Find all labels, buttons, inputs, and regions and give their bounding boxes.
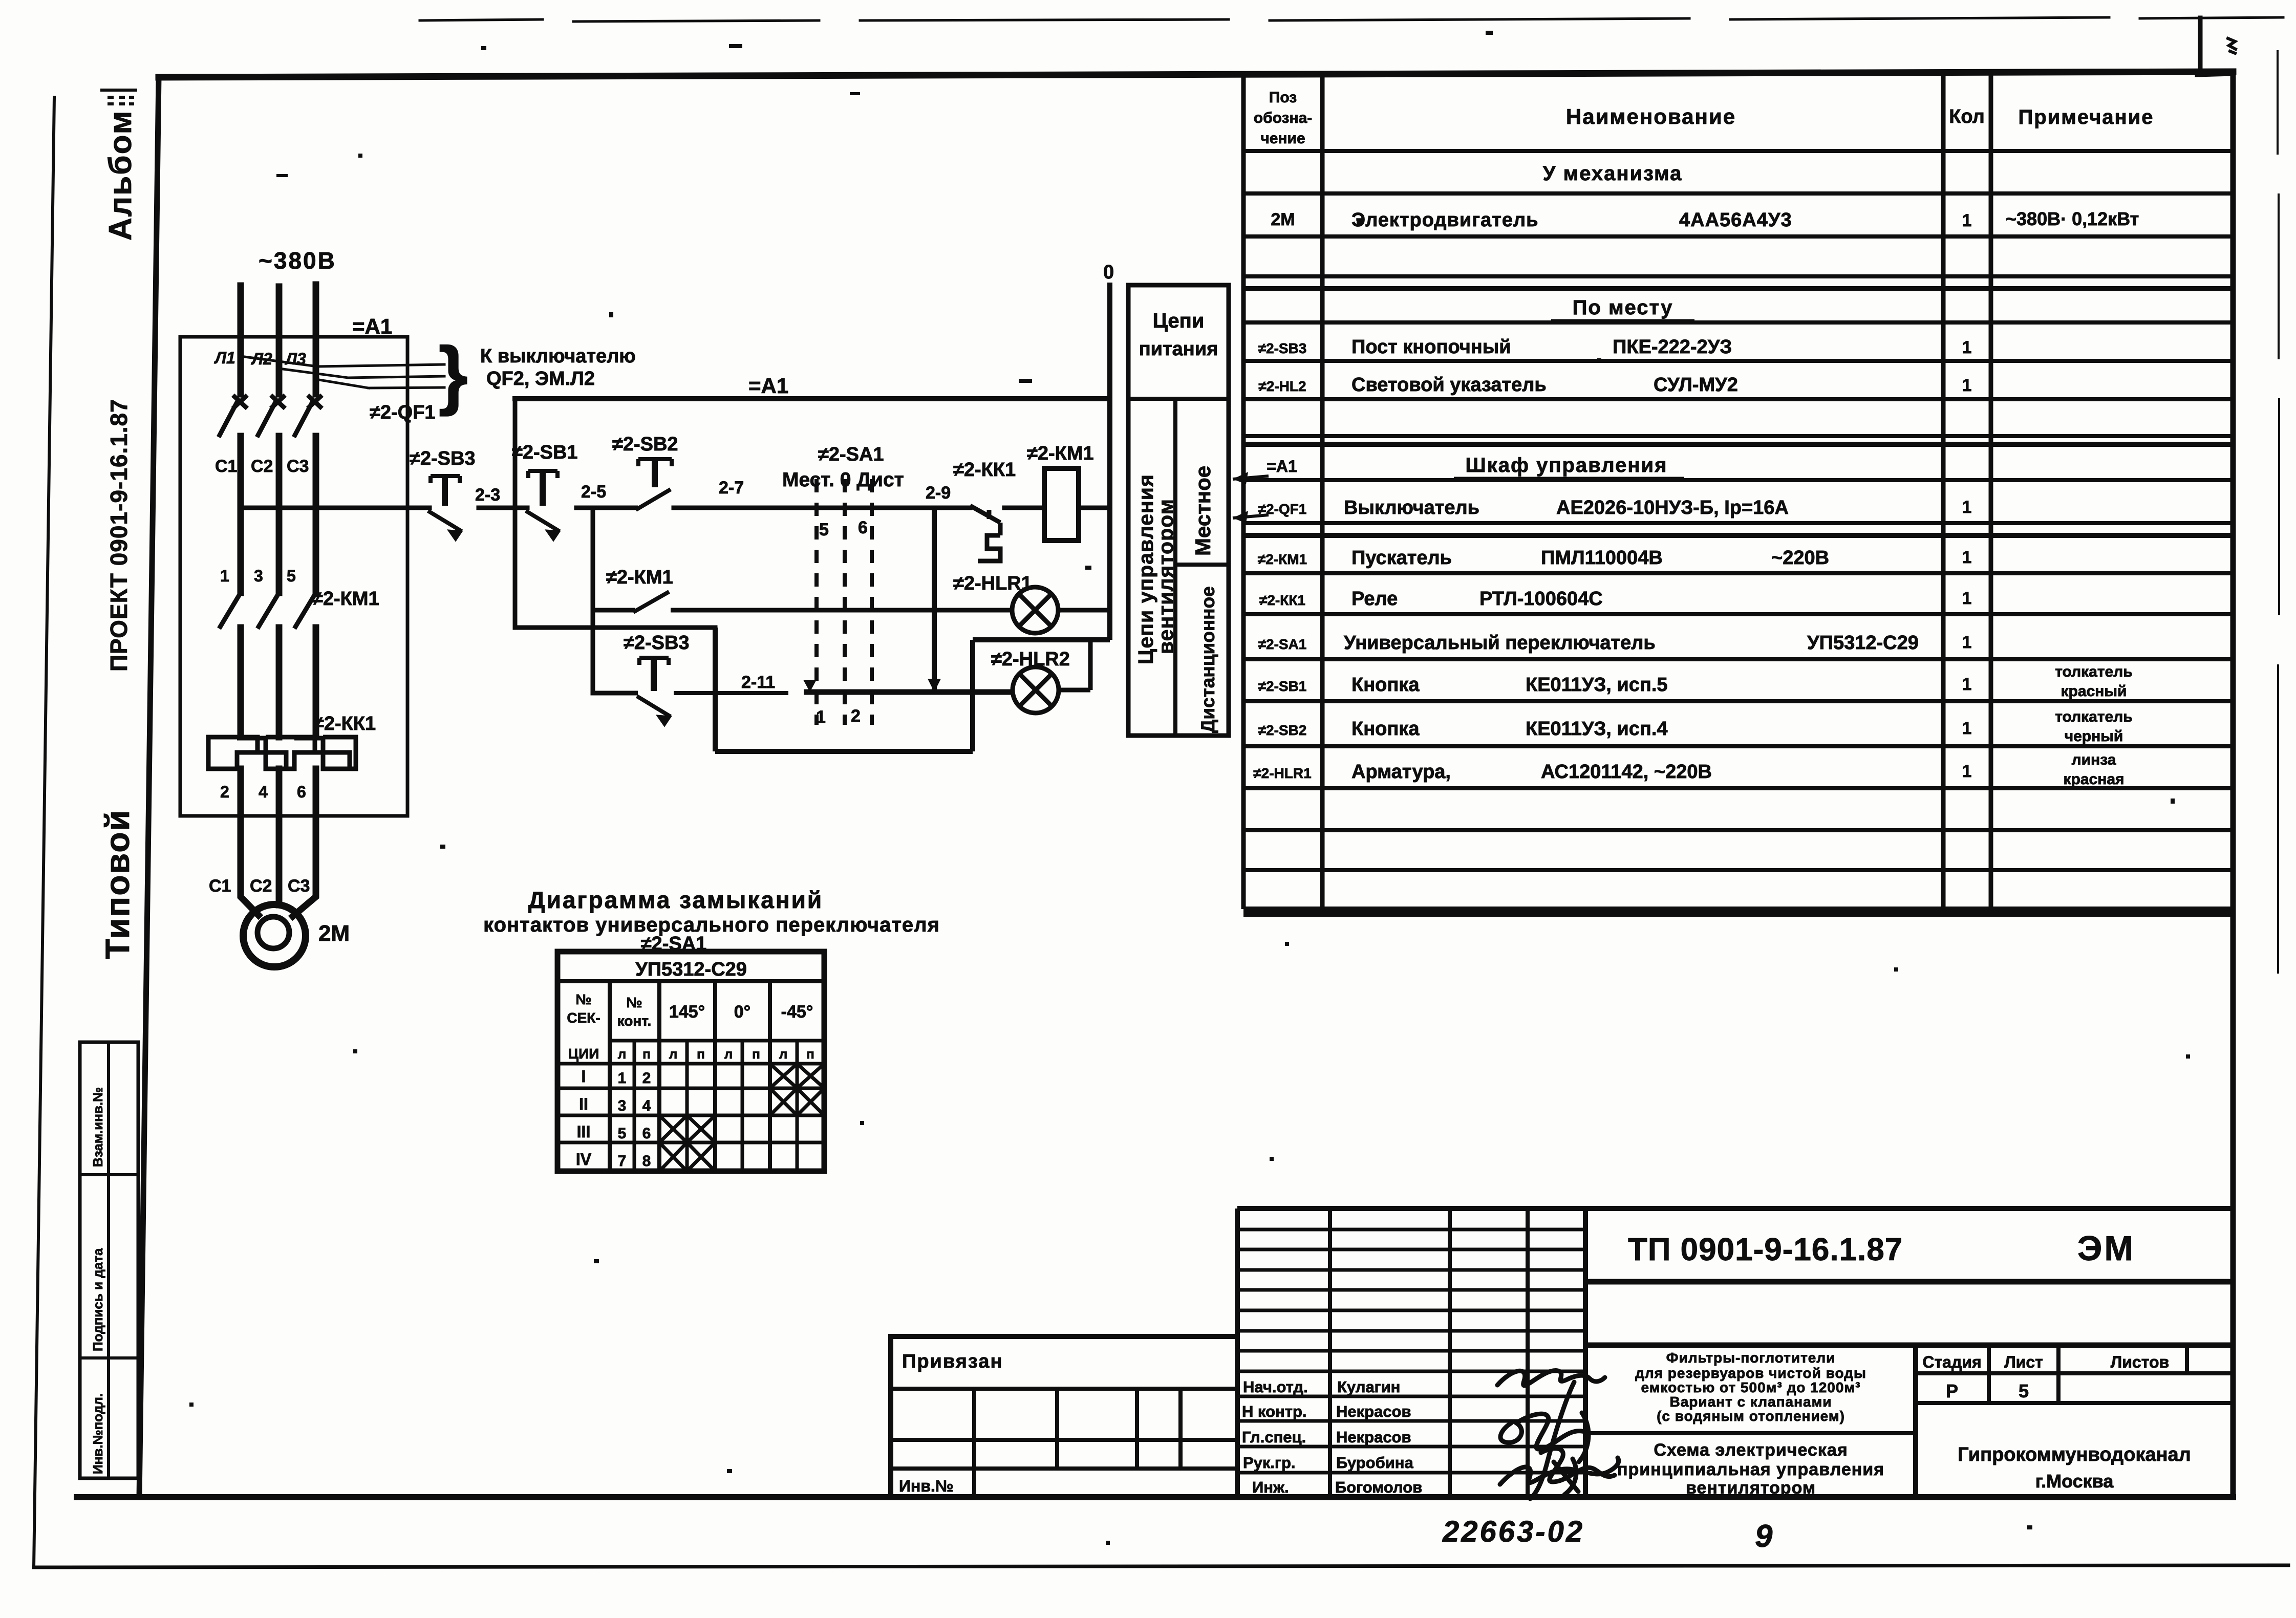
wire phase L3 lower: [313, 628, 319, 737]
paper edge bottom: [34, 1565, 2288, 1567]
svg-text:1: 1: [618, 1070, 627, 1087]
signature scribbles: [1497, 1371, 1619, 1499]
svg-text:2-7: 2-7: [719, 478, 744, 498]
svg-text:Вариант с клапанами: Вариант с клапанами: [1669, 1394, 1832, 1410]
wire left drop: [513, 399, 518, 628]
wire lamp HLR2 right: [1059, 688, 1090, 693]
wire phase L1 mid: [238, 436, 244, 593]
svg-text:2: 2: [642, 1070, 651, 1087]
X marks section IV 145: [660, 1144, 686, 1170]
svg-text:}: }: [438, 331, 468, 417]
paper edge top (broken scan line): [420, 17, 2283, 21]
svg-text:≠2-КМ1: ≠2-КМ1: [312, 588, 379, 610]
svg-text:вентилятором: вентилятором: [1686, 1478, 1816, 1498]
svg-text:145°: 145°: [669, 1002, 705, 1022]
paper edge right (broken): [2278, 51, 2279, 973]
svg-text:Наименование: Наименование: [1566, 104, 1736, 128]
junction arrow rung3: [803, 680, 817, 692]
svg-text:2: 2: [220, 783, 229, 801]
svg-text:С3: С3: [287, 457, 309, 476]
wire bypass top: [973, 637, 1110, 642]
legend outer box: [1128, 285, 1229, 736]
svg-text:Некрасов: Некрасов: [1336, 1403, 1411, 1420]
svg-text:красный: красный: [2061, 683, 2127, 700]
svg-text:2М: 2М: [1271, 210, 1295, 229]
svg-text:Примечание: Примечание: [2018, 106, 2154, 128]
left margin stamp table: [80, 1042, 138, 1478]
svg-text:3: 3: [618, 1097, 627, 1114]
top-right small mark: [2228, 38, 2236, 53]
svg-text:6: 6: [297, 783, 306, 801]
wire phase L3 top: [313, 285, 319, 394]
thermal relay KK1 heaters: [208, 737, 356, 769]
svg-text:1: 1: [1962, 762, 1972, 781]
contactor coil KM1: [1044, 468, 1079, 541]
thermal contact KK1: [970, 506, 1000, 561]
svg-text:Кулагин: Кулагин: [1337, 1378, 1400, 1396]
svg-text:Цепи: Цепи: [1153, 310, 1205, 332]
svg-text:С2: С2: [250, 876, 272, 896]
svg-text:№: №: [626, 995, 642, 1010]
signature grid thin rows: [1237, 1229, 1585, 1473]
push button SB3 second contact: [593, 658, 671, 726]
svg-text:III: III: [577, 1123, 591, 1141]
svg-text:QF2, ЭМ.Л2: QF2, ЭМ.Л2: [486, 368, 595, 390]
svg-text:ВыключательАЕ2026-10НУЗ-Б, Iр=: ВыключательАЕ2026-10НУЗ-Б, Iр=16А: [1344, 497, 1789, 519]
diagram table frame: [557, 952, 824, 1171]
svg-text:Инж.: Инж.: [1252, 1478, 1289, 1496]
svg-text:Н контр.: Н контр.: [1242, 1403, 1307, 1420]
svg-text:5: 5: [618, 1125, 627, 1142]
diagram sub column lines: [633, 1041, 636, 1171]
svg-text:≠2-SA1: ≠2-SA1: [1258, 636, 1307, 652]
svg-text:ЭМ: ЭМ: [2077, 1229, 2135, 1268]
svg-text:≠2-КМ1: ≠2-КМ1: [1258, 551, 1307, 567]
svg-text:л: л: [724, 1046, 733, 1062]
svg-text:1: 1: [816, 707, 826, 727]
svg-text:толкатель: толкатель: [2055, 708, 2133, 725]
wire motor lead C1: [241, 769, 259, 915]
svg-text:≠2-HLR1: ≠2-HLR1: [1253, 765, 1311, 781]
svg-text:С3: С3: [288, 876, 310, 896]
wire 2-7: [674, 506, 970, 510]
wire motor lead C3: [293, 769, 316, 916]
svg-text:п: п: [752, 1046, 760, 1062]
svg-text:2М: 2М: [318, 921, 350, 946]
wire phase L2 top: [276, 287, 283, 394]
svg-text:Кол: Кол: [1949, 106, 1985, 127]
svg-text:3: 3: [254, 567, 263, 585]
svg-text:≠2-SB2: ≠2-SB2: [1258, 722, 1307, 738]
contactor KM1 main contacts: [219, 593, 316, 629]
svg-text:2: 2: [851, 706, 861, 726]
svg-text:л: л: [779, 1046, 788, 1062]
svg-text:≠2-HL2: ≠2-HL2: [1258, 378, 1306, 394]
neutral bus 0: [1107, 283, 1112, 640]
svg-text:У механизма: У механизма: [1543, 162, 1683, 185]
svg-text:СЕК-: СЕК-: [567, 1010, 600, 1026]
svg-text:~380В· 0,12кВт: ~380В· 0,12кВт: [2006, 208, 2139, 229]
svg-text:С1: С1: [215, 457, 237, 476]
wire 2-11: [674, 691, 788, 695]
svg-text:≠2-QF1: ≠2-QF1: [1258, 501, 1307, 517]
svg-text:5: 5: [287, 567, 296, 585]
svg-text:Стадия: Стадия: [1922, 1353, 1981, 1371]
svg-text:По месту: По месту: [1573, 296, 1673, 319]
privyazan block: [891, 1336, 1237, 1497]
svg-text:1: 1: [1962, 633, 1972, 652]
drawing frame: [159, 72, 2233, 77]
svg-text:С2: С2: [251, 457, 273, 476]
selector switch SA1 dashed shafts: [817, 479, 872, 725]
svg-text:ПРОЕКТ 0901-9-16.1.87: ПРОЕКТ 0901-9-16.1.87: [105, 399, 132, 672]
svg-text:≠2-SB3: ≠2-SB3: [624, 632, 690, 654]
svg-text:Привязан: Привязан: [902, 1351, 1003, 1372]
svg-text:1: 1: [1962, 589, 1972, 608]
svg-text:Некрасов: Некрасов: [1336, 1428, 1411, 1446]
doc number cell: [1585, 1279, 2233, 1285]
svg-text:2-9: 2-9: [926, 483, 951, 503]
svg-text:принципиальная управления: принципиальная управления: [1617, 1460, 1884, 1479]
svg-text:ЦИИ: ЦИИ: [568, 1046, 599, 1062]
svg-text:Шкаф управления: Шкаф управления: [1466, 454, 1668, 477]
top bus wire =A1: [515, 396, 1110, 401]
svg-text:Л2: Л2: [251, 350, 272, 368]
svg-text:4: 4: [642, 1097, 651, 1114]
svg-text:≠2-SA1: ≠2-SA1: [818, 444, 884, 465]
svg-text:п: п: [806, 1046, 814, 1062]
svg-text:Л1: Л1: [214, 349, 235, 367]
svg-text:черный: черный: [2065, 728, 2123, 745]
svg-text:2-3: 2-3: [475, 485, 500, 505]
circuit breaker QF1: [219, 395, 322, 437]
svg-text:≠2-КК1: ≠2-КК1: [313, 713, 376, 735]
svg-text:≠2-SB1: ≠2-SB1: [1258, 678, 1307, 694]
svg-text:0°: 0°: [734, 1002, 751, 1022]
table verticals: [1241, 75, 1246, 909]
push button SB1 stop: [526, 471, 560, 541]
svg-text:≠2-SB3: ≠2-SB3: [1258, 340, 1307, 356]
top right registration tick: [2198, 18, 2203, 75]
svg-text:1: 1: [1962, 548, 1972, 567]
svg-text:IV: IV: [576, 1150, 592, 1169]
svg-text:Местное: Местное: [1191, 466, 1215, 556]
tap wires to QF2: [241, 356, 444, 388]
legend divider mestnoe: [1175, 563, 1229, 567]
svg-text:4: 4: [259, 783, 268, 801]
svg-text:красная: красная: [2063, 771, 2124, 788]
svg-text:9: 9: [1755, 1519, 1773, 1554]
svg-text:Инв.№: Инв.№: [899, 1477, 954, 1495]
svg-text:22663-02: 22663-02: [1442, 1515, 1584, 1548]
wire motor lead C2: [276, 769, 283, 905]
svg-text:питания: питания: [1139, 338, 1218, 360]
lamp HLR1: [1012, 587, 1058, 633]
svg-text:≠2-КК1: ≠2-КК1: [1259, 592, 1305, 608]
svg-text:емкостью от 500м³ до 1200м³: емкостью от 500м³ до 1200м³: [1641, 1379, 1861, 1395]
svg-text:К выключателю: К выключателю: [480, 346, 636, 367]
svg-text:конт.: конт.: [617, 1013, 652, 1029]
wire rung2 left: [593, 608, 635, 613]
wire 2-3: [479, 506, 527, 510]
legend divider vertical: [1173, 399, 1177, 736]
wire 2-5: [576, 506, 636, 510]
svg-text:ТП 0901-9-16.1.87: ТП 0901-9-16.1.87: [1628, 1232, 1903, 1267]
svg-text:л: л: [618, 1046, 627, 1062]
push button SB2 start: [636, 459, 672, 510]
svg-text:≠2-QF1: ≠2-QF1: [370, 402, 436, 423]
svg-text:Р: Р: [1946, 1380, 1958, 1401]
wire node 2-5 drop: [591, 508, 595, 693]
svg-text:Световой указательСУЛ-МУ2: Световой указательСУЛ-МУ2: [1351, 374, 1738, 396]
wire phase L2 lower: [276, 628, 283, 737]
push button SB3 stop: [428, 476, 462, 541]
svg-text:Диаграмма замыканий: Диаграмма замыканий: [528, 887, 823, 913]
title block top line: [1237, 1206, 2233, 1211]
title block signature grid verticals: [1235, 1209, 1240, 1497]
svg-text:=А1: =А1: [748, 374, 788, 398]
svg-text:Фильтры-поглотители: Фильтры-поглотители: [1666, 1350, 1836, 1366]
wire to KK1-KM1 coil: [1004, 506, 1044, 510]
svg-text:6: 6: [642, 1125, 651, 1142]
svg-text:л: л: [669, 1046, 678, 1062]
svg-text:Схема электрическая: Схема электрическая: [1654, 1440, 1848, 1460]
paper edge left: [34, 97, 54, 1567]
svg-text:Нач.отд.: Нач.отд.: [1243, 1378, 1308, 1396]
svg-text:Рук.гр.: Рук.гр.: [1243, 1454, 1296, 1472]
svg-text:≠2-SB1: ≠2-SB1: [512, 442, 578, 463]
svg-text:Буробина: Буробина: [1336, 1454, 1414, 1472]
svg-text:≠2-HLR2: ≠2-HLR2: [991, 649, 1070, 670]
wire coil to bus: [1079, 506, 1110, 510]
X marks section II -45: [771, 1089, 796, 1114]
svg-text:1: 1: [220, 567, 229, 585]
svg-text:1: 1: [1962, 338, 1972, 357]
svg-text:=А1: =А1: [352, 314, 392, 338]
auxiliary contact KM1: [633, 592, 669, 612]
X marks section III 145: [660, 1116, 686, 1141]
diagram header line: [557, 979, 824, 983]
svg-text:линза: линза: [2072, 751, 2116, 768]
wire 2-1: [241, 506, 430, 510]
svg-text:Богомолов: Богомолов: [1335, 1478, 1422, 1496]
table rows thin: [1243, 151, 2233, 870]
svg-text:Гипрокоммунводоканал: Гипрокоммунводоканал: [1958, 1444, 2191, 1465]
svg-text:5: 5: [2019, 1380, 2029, 1401]
svg-text:для резервуаров чистой воды: для резервуаров чистой воды: [1635, 1365, 1866, 1381]
svg-text:толкатель: толкатель: [2055, 663, 2133, 680]
svg-text:Подпись и дата: Подпись и дата: [90, 1248, 105, 1351]
svg-text:С1: С1: [209, 876, 231, 896]
svg-text:=А1: =А1: [1267, 457, 1297, 476]
svg-text:7: 7: [618, 1153, 627, 1170]
svg-text:Гл.спец.: Гл.спец.: [1242, 1428, 1306, 1446]
svg-text:№: №: [575, 991, 591, 1007]
svg-text:контактов универсального перек: контактов универсального переключателя: [483, 914, 940, 936]
svg-text:≠2-SB3: ≠2-SB3: [410, 448, 476, 469]
svg-text:≠2-HLR1: ≠2-HLR1: [953, 573, 1032, 594]
svg-text:Инв.№подл.: Инв.№подл.: [90, 1393, 105, 1474]
svg-text:Взам.инв.№: Взам.инв.№: [90, 1087, 105, 1167]
table rows heavy: [1243, 289, 2233, 914]
wire lamp HLR1 to bus: [1058, 608, 1110, 613]
svg-text:≠2-SB2: ≠2-SB2: [612, 434, 678, 455]
svg-text:~380В: ~380В: [259, 247, 336, 274]
wire bottom connector: [515, 625, 715, 630]
svg-text:1: 1: [1962, 719, 1972, 738]
svg-text:≠2-КМ1: ≠2-КМ1: [1027, 443, 1094, 464]
wire bypass bottom: [715, 749, 973, 754]
svg-text:6: 6: [858, 518, 868, 537]
svg-text:г.Москва: г.Москва: [2035, 1471, 2114, 1492]
svg-text:1: 1: [1962, 675, 1972, 694]
wire phase L1 lower: [238, 628, 244, 737]
diagram row lines: [610, 1039, 824, 1043]
leader arrow =A1 row: [1233, 476, 1269, 479]
svg-text:п: п: [697, 1046, 705, 1062]
wire rung2 to lamp: [671, 608, 1012, 613]
wire bypass left riser: [713, 628, 718, 751]
svg-text:I: I: [582, 1067, 586, 1086]
svg-text:Альбом: Альбом: [103, 110, 138, 241]
svg-text:Универсальный переключательУП5: Универсальный переключательУП5312-С29: [1344, 632, 1919, 654]
wire phase L2 mid: [276, 436, 283, 593]
svg-text:вентилятором: вентилятором: [1154, 499, 1177, 654]
svg-text:2-5: 2-5: [581, 482, 606, 502]
name/scheme divider: [1585, 1431, 1916, 1435]
motor 2M: [243, 904, 306, 967]
svg-text:2-11: 2-11: [741, 673, 775, 692]
svg-text:Листов: Листов: [2111, 1353, 2169, 1371]
wire phase L1 top: [238, 286, 244, 394]
svg-text:УП5312-С29: УП5312-С29: [635, 959, 747, 980]
svg-text:Лист: Лист: [2004, 1353, 2043, 1371]
X marks section I -45: [660, 1065, 823, 1170]
wire node 2-9 drop: [932, 508, 937, 692]
diagram column lines: [608, 981, 612, 1171]
svg-text:II: II: [579, 1095, 588, 1113]
svg-text:Л3: Л3: [285, 350, 306, 368]
svg-text:(с водяным отоплением): (с водяным отоплением): [1657, 1408, 1845, 1424]
svg-text:чение: чение: [1260, 130, 1305, 147]
svg-text:Типовой: Типовой: [98, 809, 136, 959]
svg-text:≠2-КМ1: ≠2-КМ1: [606, 567, 673, 588]
svg-text:5: 5: [819, 520, 829, 540]
legend divider top: [1128, 397, 1229, 401]
cabinet A1 outline: [180, 337, 407, 816]
svg-text:обозна-: обозна-: [1254, 110, 1313, 126]
svg-text:1: 1: [1962, 498, 1972, 517]
lamp HLR2: [1013, 667, 1059, 713]
svg-text:Поз: Поз: [1269, 89, 1297, 106]
wire rung3 heavy: [804, 689, 1013, 695]
svg-text:1: 1: [1962, 376, 1972, 395]
svg-text:8: 8: [642, 1153, 651, 1170]
leader arrow QF1 row: [1233, 515, 1269, 518]
wire HLR2 riser: [1088, 640, 1093, 690]
svg-text:Дистанционное: Дистанционное: [1197, 586, 1218, 733]
album III marks: [100, 90, 137, 104]
wire bypass left drop: [970, 640, 975, 751]
right sub-block lines: [1913, 1345, 1918, 1497]
wire phase L3 mid: [313, 436, 319, 593]
svg-text:-45°: -45°: [781, 1002, 813, 1022]
svg-text:≠2-КК1: ≠2-КК1: [953, 459, 1016, 481]
svg-text:п: п: [642, 1046, 651, 1062]
svg-text:1: 1: [1962, 211, 1972, 230]
svg-text:0: 0: [1103, 262, 1114, 283]
